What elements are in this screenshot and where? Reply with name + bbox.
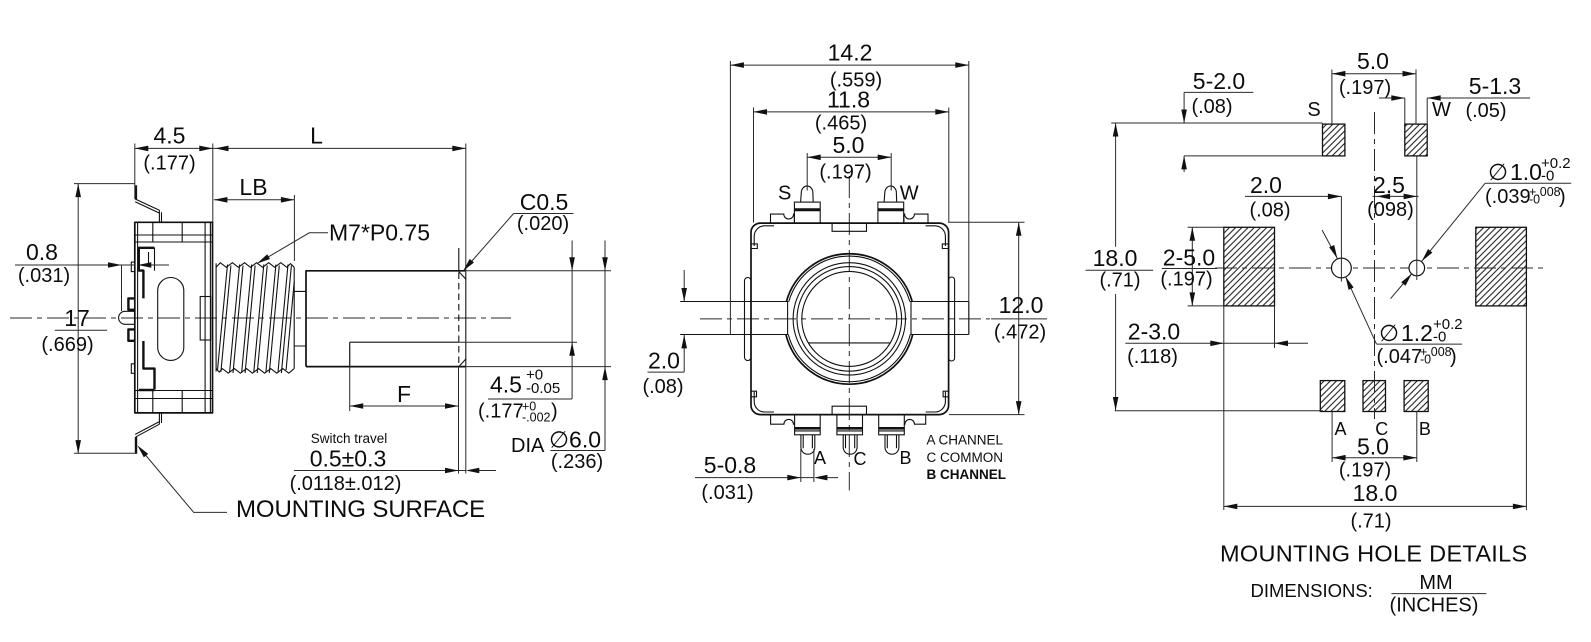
svg-text:11.8: 11.8: [827, 87, 870, 113]
terminal B: [879, 415, 905, 455]
pad edge extensions: [1224, 306, 1527, 510]
body corner inner arc BL: [754, 392, 774, 412]
shaft: [306, 271, 466, 367]
svg-text:Switch travel: Switch travel: [311, 431, 388, 446]
svg-text:L: L: [310, 123, 323, 149]
svg-text:-0: -0: [1433, 329, 1446, 346]
pad B: [1404, 381, 1428, 412]
svg-text:(.197): (.197): [1160, 269, 1212, 291]
dim L right extension line: [465, 144, 467, 271]
shaft end chamfer marks: [459, 272, 466, 367]
boss arc inner: [788, 256, 910, 382]
svg-text:B CHANNEL: B CHANNEL: [927, 467, 1007, 482]
terminal W block: [878, 186, 904, 223]
svg-text:2.0: 2.0: [1250, 172, 1282, 198]
svg-text:): ): [1559, 186, 1566, 208]
svg-text:MOUNTING SURFACE: MOUNTING SURFACE: [236, 496, 485, 523]
dia 1.2 leader: [1322, 230, 1376, 344]
pad S: [1323, 124, 1345, 156]
svg-text:A: A: [814, 448, 826, 468]
svg-text:14.2: 14.2: [828, 40, 873, 66]
dia 1.0 leader: [1391, 183, 1486, 298]
svg-text:5-1.3: 5-1.3: [1469, 73, 1521, 99]
svg-text:(.71): (.71): [1350, 511, 1391, 533]
hole 1.0 right: [1409, 260, 1425, 276]
body corner inner arc TR: [926, 226, 946, 246]
switch travel dim line: [294, 470, 496, 472]
thread left edge: [215, 263, 217, 371]
svg-text:2-3.0: 2-3.0: [1128, 319, 1180, 345]
pad right large: [1476, 227, 1527, 306]
dim 14.2 line: [730, 64, 968, 66]
svg-text:(.05): (.05): [1465, 100, 1506, 122]
dim 2-5.0 vertical: [1191, 227, 1193, 306]
svg-text:DIMENSIONS:: DIMENSIONS:: [1251, 580, 1373, 601]
svg-text:(.08): (.08): [1191, 96, 1232, 118]
left plate step lower: [131, 364, 135, 374]
bushing base block: [200, 297, 210, 341]
dim 4.5 / L top dimension line: [135, 147, 466, 149]
svg-text:(.031): (.031): [18, 265, 70, 287]
corner step TR: [942, 244, 948, 249]
svg-text:5.0: 5.0: [833, 132, 865, 158]
svg-text:(.236): (.236): [551, 451, 603, 473]
svg-text:18.0: 18.0: [1353, 480, 1398, 506]
svg-text:(.71): (.71): [1099, 270, 1140, 292]
dim 4.5 extension line left: [134, 144, 136, 200]
svg-text:(.0118±.012): (.0118±.012): [290, 473, 402, 495]
svg-text:W: W: [900, 183, 919, 205]
svg-text:(.118): (.118): [1127, 346, 1178, 368]
bottom step right: [904, 415, 926, 425]
svg-text:4.5: 4.5: [490, 372, 522, 398]
svg-text:5.0: 5.0: [1357, 48, 1389, 74]
dim F line: [350, 405, 459, 407]
dim 17 extension lines: [74, 184, 135, 454]
svg-text:0.8: 0.8: [26, 239, 58, 265]
switch travel extension lines: [459, 367, 466, 474]
bottom mounting tab: [135, 413, 161, 437]
dim DIA 6.0 vertical line: [604, 241, 606, 451]
dim 5.0 extensions: [807, 153, 891, 191]
dim 18.0 left vertical: [1115, 123, 1117, 411]
left plate step upper: [131, 262, 135, 272]
top plateau left with notch: [771, 214, 795, 223]
svg-text:∅ 1.0: ∅ 1.0: [1488, 159, 1542, 185]
body inner horizontal lines: [135, 235, 213, 399]
shaft end face: [465, 272, 467, 367]
thread bushing top crest: [216, 263, 294, 268]
svg-text:(.197): (.197): [819, 162, 871, 184]
svg-text:-.002: -.002: [522, 411, 551, 425]
top plateau right with notch: [904, 214, 928, 223]
bushing circle: [793, 263, 905, 375]
svg-text:DIA: DIA: [511, 435, 545, 457]
body corner inner arc TL: [754, 226, 774, 246]
thread helix lines: [218, 265, 295, 374]
pad C: [1363, 381, 1386, 412]
svg-text:): ): [551, 401, 558, 423]
dim 2-5.0 underline: [1162, 268, 1217, 270]
shaft top edge extension: [466, 270, 611, 272]
svg-text:S: S: [1307, 99, 1320, 121]
centerline: [10, 317, 511, 319]
svg-text:): ): [1450, 346, 1457, 368]
svg-text:C COMMON: C COMMON: [927, 450, 1004, 465]
corner step BL: [751, 391, 757, 397]
bottom center tab: [832, 406, 866, 414]
svg-text:MOUNTING HOLE DETAILS: MOUNTING HOLE DETAILS: [1220, 541, 1528, 567]
svg-text:(INCHES): (INCHES): [1390, 595, 1479, 617]
dim 18.0 left underline: [1086, 269, 1154, 271]
dim 0.8 line: [15, 264, 169, 266]
svg-text:-0.05: -0.05: [526, 380, 560, 397]
side plate right: [949, 277, 955, 361]
dim 18.0 bottom line: [1224, 505, 1527, 507]
dim 0.8 extension: [121, 265, 123, 311]
svg-text:B: B: [1419, 419, 1431, 439]
body outer box: [135, 222, 213, 413]
hole extension lines: [1341, 156, 1416, 282]
svg-text:5.0: 5.0: [1357, 434, 1389, 460]
svg-text:A CHANNEL: A CHANNEL: [927, 433, 1004, 448]
dim 5-1.3 pad edge extensions: [1405, 98, 1427, 124]
svg-text:S: S: [778, 183, 791, 205]
corner step BR: [943, 391, 949, 397]
bottom step left: [771, 415, 795, 425]
top center tab: [832, 223, 866, 231]
dim 4.5-0.05 underline: [488, 398, 572, 400]
dim 5-2.0 leader vertical: [1183, 92, 1185, 172]
svg-text:(.197): (.197): [1339, 460, 1391, 482]
svg-text:18.0: 18.0: [1093, 245, 1138, 271]
dim 5-2.0 underline: [1184, 91, 1253, 93]
dim 12.0 extensions: [949, 222, 1025, 414]
dim 4.5-0.05 vertical line: [571, 241, 573, 400]
svg-text:(.08): (.08): [642, 376, 683, 398]
dim 2-3.0 line: [1125, 342, 1308, 344]
svg-text:(.177: (.177: [478, 401, 524, 423]
svg-text:F: F: [397, 381, 411, 407]
side strip right: [910, 302, 969, 335]
svg-text:(.669): (.669): [41, 334, 93, 356]
dim F extension: [349, 345, 351, 411]
inner frame contour bottom: [139, 341, 155, 390]
svg-text:4.5: 4.5: [154, 123, 186, 149]
svg-text:12.0: 12.0: [999, 292, 1044, 318]
svg-text:(.039: (.039: [1485, 186, 1531, 208]
body corner inner arc BR: [926, 392, 946, 412]
boss arc outer: [786, 254, 913, 384]
side plate left: [745, 278, 752, 361]
inner frame contour top: [139, 248, 155, 299]
shaft pressed position line: [458, 248, 460, 272]
dim 17 vertical line: [77, 184, 79, 454]
fraction line: [1391, 593, 1486, 595]
switch plunger support lower: [128, 329, 134, 340]
horizontal centerline: [1215, 267, 1545, 269]
svg-text:2-5.0: 2-5.0: [1163, 245, 1215, 271]
svg-text:(.08): (.08): [1249, 200, 1290, 222]
svg-text:M7*P0.75: M7*P0.75: [329, 220, 430, 246]
dim 12.0 line: [1018, 222, 1020, 414]
svg-text:(.031): (.031): [701, 482, 753, 504]
dim 17 underline: [55, 329, 107, 331]
pad A: [1320, 381, 1345, 412]
dim 5.0 bottom line: [1332, 457, 1417, 459]
label C0.5 leader: [465, 214, 574, 270]
svg-text:-0: -0: [1420, 353, 1431, 367]
dim 5.0 line: [807, 156, 891, 158]
top bar line lower: [1184, 155, 1322, 157]
svg-text:W: W: [1432, 99, 1451, 121]
top mounting tab: [135, 185, 137, 199]
dim LB line: [214, 199, 295, 201]
pad left large: [1224, 227, 1275, 306]
shaft bottom edge extension: [466, 366, 611, 368]
svg-text:∅6.0: ∅6.0: [549, 427, 601, 453]
svg-text:LB: LB: [239, 174, 267, 200]
shaft circle: [802, 271, 897, 366]
terminal S block: [794, 186, 820, 223]
dim 5-0.8 line: [695, 477, 838, 479]
dim 14.2 extensions: [730, 61, 968, 335]
shaft flat edge: [350, 341, 459, 343]
svg-text:(.047: (.047: [1377, 346, 1423, 368]
dim 11.8 line: [754, 111, 949, 113]
svg-text:2.5: 2.5: [1373, 172, 1405, 198]
dim 5.0 bottom extensions: [1332, 412, 1417, 463]
terminal C: [837, 415, 863, 455]
shaft neck groove: [294, 291, 306, 346]
body vertical dividers: [138, 222, 211, 413]
dim 5.0 top line: [1332, 73, 1416, 75]
svg-text:-0: -0: [1541, 168, 1554, 185]
dim 5-1.3 line: [1379, 97, 1465, 99]
svg-text:5-2.0: 5-2.0: [1193, 68, 1245, 94]
shaft flat extension: [459, 341, 578, 343]
mounting surface leader: [140, 449, 227, 513]
dim 2.0 mid line: [1245, 195, 1419, 197]
bottom bar line: [1115, 410, 1323, 412]
shaft flat chord: [808, 342, 890, 344]
svg-text:-0: -0: [1529, 193, 1540, 207]
dim 2-5.0 extensions: [1188, 227, 1224, 306]
svg-text:C0.5: C0.5: [520, 189, 569, 215]
dim 2.0 underline: [648, 371, 685, 373]
dim 2.0 line: [683, 270, 685, 372]
svg-text:2.0: 2.0: [648, 348, 680, 374]
svg-text:B: B: [899, 448, 911, 468]
thread bushing bottom crest: [216, 369, 294, 374]
thread minor circle: [797, 267, 902, 372]
svg-text:(.197): (.197): [1339, 77, 1391, 99]
dim LB extension: [293, 195, 295, 261]
svg-text:(.177): (.177): [143, 153, 195, 175]
dim 5-1.3 underline: [1465, 97, 1530, 99]
inner frame verticals: [149, 248, 155, 271]
top bar line upper: [1111, 122, 1322, 124]
corner step TL: [751, 244, 757, 249]
switch plunger support upper: [128, 298, 134, 309]
horizontal centerline: [700, 318, 990, 320]
svg-text:A: A: [1334, 419, 1346, 439]
svg-text:(.020): (.020): [517, 213, 569, 235]
svg-text:5-0.8: 5-0.8: [704, 452, 756, 478]
dim 5-0.8 extensions: [801, 449, 814, 482]
terminal A: [795, 415, 821, 455]
stadium slot: [158, 278, 184, 361]
vertical centerline: [848, 176, 850, 491]
svg-text:(.472): (.472): [994, 322, 1046, 344]
vertical centerline: [1374, 112, 1376, 419]
svg-text:17: 17: [64, 305, 90, 331]
thread end face: [293, 267, 295, 368]
dim 12.0 underline: [991, 318, 1047, 320]
dim 5.0 top extensions: [1332, 70, 1416, 125]
svg-text:0.5±0.3: 0.5±0.3: [310, 446, 387, 472]
body outline: [751, 223, 949, 415]
svg-text:(098): (098): [1367, 199, 1414, 221]
svg-text:MM: MM: [1419, 572, 1452, 594]
svg-text:C: C: [854, 449, 867, 469]
dim 4.5/L shared extension line: [212, 144, 214, 223]
shaft flat start edge: [349, 342, 351, 366]
dia 1.2 underline: [1377, 343, 1463, 345]
dim 11.8 extensions: [754, 108, 949, 224]
svg-text:∅ 1.2: ∅ 1.2: [1379, 320, 1433, 346]
pad W: [1405, 124, 1427, 156]
hole 1.2 left: [1332, 258, 1352, 278]
label M7*P0.75 leader: [258, 233, 328, 263]
side strip left: [680, 302, 788, 335]
dia 1.0 underline: [1485, 182, 1571, 184]
switch plunger pin: [119, 311, 135, 324]
dim DIA 6.0 underline: [550, 450, 605, 452]
boss slot end caps: [788, 302, 911, 335]
